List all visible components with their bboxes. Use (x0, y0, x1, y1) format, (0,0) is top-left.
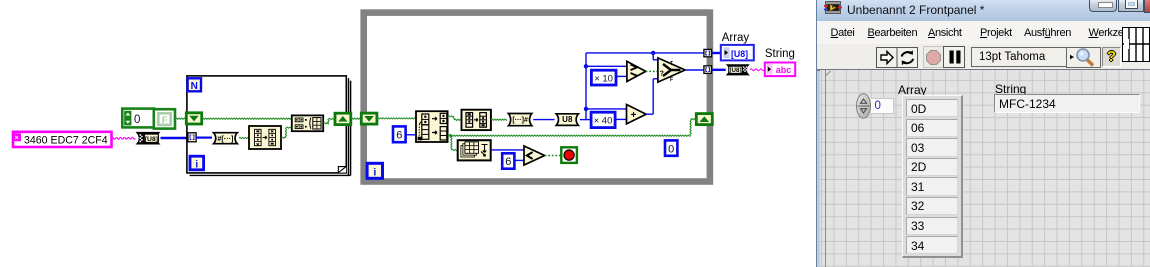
function Split 1D Array (416, 111, 448, 142)
svg-text:3460 EDC7 2CF4: 3460 EDC7 2CF4 (24, 135, 108, 147)
function To Unsigned Byte U8 (556, 114, 578, 126)
wire for-loop shift register to while-loop shift register (boolean array) (351, 118, 361, 119)
wire bottom tunnel to Byte Array To String (blue array) (712, 69, 726, 71)
front panel left border and origin mark (825, 70, 826, 267)
while loop left shift register (down arrow) (361, 113, 377, 124)
svg-text:× 40: × 40 (594, 116, 613, 127)
label Array (722, 32, 750, 44)
wire byte array to for-loop tunnel (blue U8 array wire) (161, 137, 189, 140)
wire Array Size to Less (blue) (491, 149, 524, 151)
svg-text:6: 6 (505, 156, 511, 168)
svg-text:N: N (191, 81, 198, 92)
svg-text:[···]#: [···]# (512, 117, 528, 124)
label String (765, 48, 795, 60)
svg-text:F: F (670, 77, 673, 83)
wire Reverse 1D Array to Build Array (boolean array) (281, 127, 292, 138)
array control (element column) (902, 95, 963, 259)
help button ? (1102, 47, 1121, 67)
wire top tunnel to Array indicator (blue array) (712, 52, 722, 54)
menu item Ansicht (928, 27, 962, 39)
svg-text:×: × (14, 135, 18, 142)
function Byte Array To String (727, 65, 748, 75)
menu item Werkze (1089, 27, 1124, 39)
svg-text:i: i (195, 159, 198, 170)
toolbar (817, 44, 1150, 71)
align objects grid icon (1122, 27, 1150, 62)
wire constant 6 to Less (blue) (514, 159, 524, 161)
function Number To Boolean Array #[...] (214, 133, 238, 144)
for loop count terminal N (188, 78, 201, 92)
function String To Byte Array (137, 133, 159, 144)
comparison Greater Or Equal (627, 61, 646, 81)
svg-text:?: ? (660, 70, 664, 77)
svg-text:F: F (162, 115, 168, 126)
wire Split bottom output junction (to Array Size and right shift register) (448, 119, 697, 151)
wire Split top output to Reverse 1D Array (boolean array) (448, 116, 462, 121)
close button (cut off) (1144, 0, 1150, 13)
menu bar (817, 21, 1150, 45)
wire junction to Select T input (blue) (653, 53, 658, 60)
while loop output tunnel [] (array, top) (704, 49, 712, 56)
svg-text:T: T (670, 61, 673, 67)
array index spinner (856, 93, 874, 121)
numeric constant 0 (green, with increment arrows) (122, 109, 154, 128)
svg-text:abc: abc (776, 65, 792, 75)
for loop left shift register (down arrow) (186, 113, 201, 124)
while loop right shift register (up arrow) (696, 114, 712, 125)
numeric constant 0 (unwired) (665, 140, 677, 155)
wire Build Array to right shift register (boolean array) (323, 118, 335, 124)
wire Select output to bottom tunnel (blue) (685, 69, 704, 71)
wire Byte Array To String to String indicator (pink string) (750, 69, 765, 71)
wire string constant to String-To-Byte-Array (pink string wire) (112, 137, 136, 139)
svg-text:U8: U8 (562, 115, 573, 124)
svg-text:6: 6 (396, 130, 402, 142)
expression node x40 (591, 112, 615, 127)
label Array (898, 83, 927, 97)
wire constant 6 to Split 1D Array index (406, 134, 418, 136)
font selector 13pt Tahoma (971, 47, 1067, 67)
function Select (658, 58, 685, 83)
wire Boolean Array To Number to U8 conversion (blue) (533, 119, 554, 121)
while loop condition terminal (stop) (561, 147, 577, 163)
svg-text:[U8]: [U8] (145, 136, 158, 143)
expression node x10 (591, 70, 616, 85)
boolean constant F (green) (154, 109, 175, 128)
function Reverse 1D Array (in for loop) (249, 126, 281, 149)
for loop right shift register (up arrow) (335, 113, 351, 124)
svg-text:#[···]: #[···] (217, 134, 233, 143)
wire shift register to Build Array (boolean array) (202, 118, 292, 119)
maximize button (1118, 0, 1144, 12)
minimize button (1089, 0, 1117, 12)
wire F constant to for-loop left shift register (boolean) (175, 118, 186, 119)
run button (876, 47, 918, 68)
window title text (847, 3, 984, 17)
indicator Array [U8] (721, 45, 754, 61)
wire to Reverse 1D Array (boolean array) (239, 137, 249, 138)
LabVIEW VI icon (824, 0, 842, 16)
front panel window frame (816, 0, 1150, 267)
wire tunnel to Number To Boolean Array (blue) (196, 137, 212, 139)
wire x10 to greater-or-equal (blue) (616, 75, 627, 77)
svg-text:i: i (373, 167, 376, 179)
for loop frame (double border with page fold) (187, 76, 351, 175)
while loop frame (gray) (364, 13, 710, 182)
svg-text:Array: Array (722, 32, 750, 44)
menu item Bearbeiten (868, 27, 918, 39)
comparison Less? (524, 146, 545, 165)
svg-text:0: 0 (668, 143, 674, 155)
function Build Array (292, 115, 323, 131)
function Reverse 1D Array (in while loop) (462, 110, 491, 130)
array index field 0 (871, 98, 894, 114)
svg-text:+: + (631, 110, 637, 121)
string indicator MFC-1234 (994, 94, 1140, 113)
menu item Ausführen (1024, 27, 1071, 39)
for loop input tunnel [] (188, 133, 196, 142)
label String (995, 82, 1026, 96)
search / magnifier box (1066, 46, 1101, 68)
svg-text:String: String (765, 48, 795, 60)
function Array Size (stacked grids) (458, 140, 491, 160)
numeric constant 6 (loop limit) (502, 153, 514, 168)
wire greater-or-equal to Select (boolean dotted) (646, 70, 658, 72)
while loop output tunnel [] (array, bottom) (704, 66, 712, 74)
svg-text:[U8]: [U8] (731, 49, 748, 59)
svg-text:[U8]: [U8] (729, 67, 741, 74)
front panel grid background (820, 70, 1150, 267)
wire Reverse to Boolean Array To Number (boolean array) (491, 119, 507, 120)
svg-text:0: 0 (134, 114, 140, 126)
for loop iteration terminal i (190, 156, 204, 170)
wire Add output to Select F input (blue) (646, 79, 658, 114)
wire x40 to add (blue) (615, 118, 627, 120)
while loop iteration terminal i (367, 163, 382, 178)
stop button (disabled) and pause button (923, 46, 965, 68)
function Add (627, 105, 647, 124)
numeric constant 6 (split index) (393, 126, 406, 142)
indicator String abc (765, 63, 795, 77)
menu item Projekt (980, 27, 1012, 39)
string constant 3460 EDC7 2CF4 (12, 132, 112, 147)
menu item Datei (831, 27, 855, 39)
wire U8 output network (to x40, x10 branch, top tunnel) (580, 51, 704, 120)
svg-text:× 10: × 10 (594, 73, 613, 84)
function Boolean Array To Number [...]# (508, 114, 531, 126)
window title bar (817, 0, 1150, 21)
wire Less to loop condition terminal (boolean dotted) (545, 155, 561, 157)
wire shift register to Split 1D Array (boolean array) (377, 118, 416, 119)
